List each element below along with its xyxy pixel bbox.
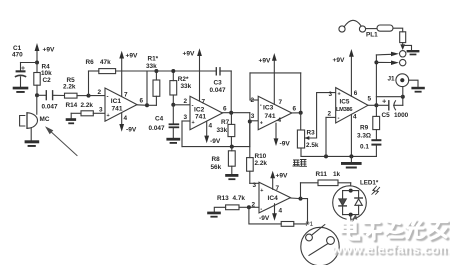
svg-text:2: 2 [184, 98, 188, 105]
pin 6 output (IC2) [223, 112, 250, 114]
pin 7 +9V (IC3) [272, 53, 277, 104]
svg-text:7: 7 [279, 99, 283, 106]
svg-text:6: 6 [140, 98, 144, 105]
svg-text:1000: 1000 [394, 112, 409, 119]
wire IC5 output up to switch [375, 55, 377, 105]
svg-text:-9V: -9V [126, 127, 137, 134]
node (mic / C2 junction) [35, 93, 39, 97]
svg-text:2.2k: 2.2k [81, 102, 94, 109]
resistor R14 [71, 111, 105, 118]
resistor R10 [247, 122, 254, 184]
ground (R13) [207, 212, 221, 218]
svg-text:0.047: 0.047 [149, 125, 165, 132]
wire to IC1 pin 2 [89, 95, 106, 97]
svg-text:C3: C3 [214, 80, 223, 87]
svg-text:3: 3 [251, 113, 255, 120]
wire output to R1 [147, 104, 156, 106]
svg-text:2: 2 [98, 89, 102, 96]
pin 6 +9V (IC5) [349, 49, 354, 96]
pin 3 wire (IC2) to bias rail [182, 121, 250, 147]
capacitor C1 [16, 63, 26, 87]
svg-text:C2: C2 [43, 77, 52, 84]
svg-text:MC: MC [40, 116, 50, 123]
node (R2 top) [171, 69, 175, 73]
svg-text:4: 4 [124, 115, 128, 122]
svg-text:470: 470 [12, 52, 23, 59]
resistor R8 [228, 147, 235, 174]
wire LED bottom exit [350, 215, 352, 231]
resistor R7 [228, 113, 235, 147]
wire [21, 62, 38, 64]
svg-text:www.elecfans.com: www.elecfans.com [331, 242, 450, 257]
svg-text:0.047: 0.047 [210, 87, 226, 94]
svg-text:+: + [338, 92, 341, 98]
resistor R13 [214, 205, 259, 212]
capacitor 0.1 (zobel) [371, 139, 381, 156]
resistor R11 [301, 180, 351, 199]
svg-text:R6: R6 [86, 59, 95, 66]
annotation arrow (points to mic) [45, 126, 77, 155]
node (IC5 pin2 on rail) [324, 154, 328, 158]
ground (C4) [166, 138, 180, 144]
svg-text:33k: 33k [146, 63, 157, 70]
ground (mic) [25, 140, 40, 147]
svg-text:+9V: +9V [126, 53, 139, 60]
svg-text:47k: 47k [100, 59, 111, 66]
svg-text:+9V: +9V [43, 47, 56, 54]
plug PL1 [339, 20, 403, 32]
op-amp IC4 [259, 182, 291, 213]
svg-text:4: 4 [279, 208, 283, 215]
svg-text:-9V: -9V [280, 141, 291, 148]
jack J1 [396, 74, 418, 97]
op-amp IC2 [190, 96, 223, 129]
svg-text:+: + [107, 113, 110, 119]
svg-text:6: 6 [293, 106, 297, 113]
node (C1 / R4 / +9V junction) [35, 61, 39, 65]
pin 4 -9V (IC3) [274, 123, 279, 146]
pin 2 wire (IC5) [326, 117, 336, 156]
pin 6 output (IC3) [292, 112, 301, 114]
LED indicator circle [333, 186, 367, 220]
svg-text:1k: 1k [333, 171, 341, 178]
svg-text:+: + [192, 120, 195, 126]
resistor R6 feedback [89, 69, 148, 106]
svg-text:P1: P1 [306, 221, 314, 228]
volume label (Chinese) [293, 160, 307, 167]
svg-text:R7: R7 [221, 119, 230, 126]
ground (R14) [66, 118, 76, 124]
wire IC2out corner down to IC3 pin3 node [249, 113, 251, 122]
resistor (PL1 branch) [400, 32, 406, 50]
svg-text:3: 3 [329, 91, 333, 98]
node (C3/R7 on IC2 output) [229, 111, 233, 115]
node (IC1 pin2 / R5 / R6) [87, 94, 91, 98]
capacitor C5 (electrolytic out) [376, 100, 402, 110]
node (IC4 pin2) [247, 205, 251, 209]
svg-text:3.3Ω: 3.3Ω [357, 133, 371, 140]
node (LED bottom) [349, 213, 353, 217]
svg-text:0.1: 0.1 [360, 144, 369, 151]
top rail wire [147, 70, 216, 72]
svg-text:+: + [260, 188, 263, 194]
svg-text:56k: 56k [211, 164, 222, 171]
svg-text:-: - [260, 207, 262, 213]
node (R7/R8 divider) [230, 145, 234, 149]
svg-text:3: 3 [253, 182, 257, 189]
pin 4 -9V (IC1) [119, 113, 124, 132]
lightning mark [372, 186, 377, 195]
pin 5 output (IC5) [368, 104, 376, 106]
svg-text:4: 4 [353, 114, 357, 121]
svg-text:-9V: -9V [210, 138, 221, 145]
pin 7 +9V (IC4) [270, 171, 275, 190]
pin 6 output (IC4) [291, 197, 301, 200]
svg-text:R11: R11 [316, 171, 328, 178]
svg-text:R3: R3 [307, 130, 316, 137]
svg-text:33k: 33k [181, 83, 192, 90]
svg-text:7: 7 [202, 99, 206, 106]
svg-text:741: 741 [112, 106, 123, 113]
svg-text:+9V: +9V [259, 58, 272, 65]
svg-text:R14: R14 [66, 102, 78, 109]
pin 7 +9V (IC2) [197, 48, 202, 101]
svg-text:R9: R9 [360, 125, 369, 132]
op-amp IC3 [258, 96, 292, 129]
svg-text:3: 3 [99, 107, 103, 114]
pin 6 output (IC1) [137, 104, 147, 107]
svg-text:+: + [260, 121, 263, 127]
svg-text:2.2k: 2.2k [255, 160, 268, 167]
switch contact circles [400, 51, 406, 57]
svg-text:C4: C4 [155, 116, 164, 123]
node (LED top) [349, 189, 353, 193]
svg-text:7: 7 [124, 92, 128, 99]
svg-text:0.047: 0.047 [42, 104, 58, 111]
ground (IC5) [341, 156, 362, 168]
pin 4 -9V (IC4) [272, 204, 277, 221]
wire C5 up to J1 [402, 97, 404, 106]
svg-text:LED1*: LED1* [360, 180, 379, 187]
probe plug P1 [301, 225, 339, 265]
svg-text:R10: R10 [255, 153, 267, 160]
ground (R8) [225, 174, 238, 180]
feedback resistor (IC4) [249, 199, 308, 227]
svg-text:-: - [338, 116, 340, 122]
svg-text:R2*: R2* [178, 76, 189, 83]
svg-text:2: 2 [328, 111, 332, 118]
ground (PL1 branch) [403, 45, 420, 55]
svg-text:IC3: IC3 [263, 105, 274, 112]
probe arrow (points to LED) [346, 214, 357, 230]
svg-text:4: 4 [209, 123, 213, 130]
op-amp IC5 LM386 [336, 88, 368, 123]
svg-text:+9V: +9V [183, 51, 196, 58]
svg-text:IC5: IC5 [340, 99, 350, 106]
resistor R1* [153, 71, 160, 105]
svg-text:5: 5 [368, 96, 372, 103]
svg-text:6: 6 [223, 106, 227, 113]
svg-text:6: 6 [354, 90, 358, 97]
wire to IC2 pin 2 [173, 104, 190, 106]
svg-text:7: 7 [276, 185, 280, 192]
op-amp IC1 [105, 88, 137, 121]
svg-text:R13: R13 [217, 195, 229, 202]
svg-text:33k: 33k [217, 127, 228, 134]
svg-text:741: 741 [195, 113, 206, 120]
svg-text:3: 3 [184, 114, 188, 121]
svg-text:J1: J1 [388, 76, 396, 83]
svg-text:-: - [260, 103, 262, 109]
microphone MC [20, 95, 38, 140]
ground (J1) [411, 87, 424, 93]
capacitor C3 [216, 68, 231, 113]
capacitor C4 [169, 105, 180, 138]
svg-text:LM386: LM386 [336, 107, 352, 113]
svg-text:R1*: R1* [148, 56, 159, 63]
svg-text:C5: C5 [382, 112, 391, 119]
resistor R4 [34, 63, 40, 96]
node (IC2 pin2 / R2 / C4) [171, 103, 175, 107]
svg-text:-: - [107, 95, 109, 101]
svg-text:R8: R8 [212, 156, 221, 163]
ground (C1) [13, 87, 29, 93]
wire to IC4 pin 3 [250, 182, 259, 184]
wire rail up to node [249, 122, 251, 147]
pin 2 feedback loop (IC3) [250, 73, 301, 113]
svg-text:4.7k: 4.7k [233, 195, 246, 202]
ground rail (output stage) [301, 155, 376, 157]
svg-text:+9V: +9V [333, 57, 346, 64]
pin 7 +9V (IC1) [119, 51, 124, 97]
svg-text:-9V: -9V [259, 215, 270, 222]
svg-text:4: 4 [278, 117, 282, 124]
svg-text:+9V: +9V [276, 173, 289, 180]
svg-text:741: 741 [265, 113, 276, 120]
resistor R2* [170, 71, 177, 105]
svg-text:2.5k: 2.5k [306, 142, 319, 149]
pin 4 -9V (IC2) [204, 121, 209, 143]
resistor R5 [65, 93, 89, 98]
pin 4 (IC5) [350, 114, 352, 156]
svg-text:IC1: IC1 [111, 98, 122, 105]
svg-text:IC4: IC4 [268, 195, 279, 202]
wire to IC3 pin 3 [250, 120, 258, 122]
svg-text:2.2k: 2.2k [63, 84, 76, 91]
LED pair wiring [339, 191, 362, 215]
capacitor C2 [37, 91, 65, 100]
switch contact wires with arrows [376, 52, 399, 65]
power arrow +9V (input stage) [35, 43, 40, 63]
svg-text:PL1: PL1 [366, 32, 378, 39]
potentiometer R3 [297, 93, 335, 157]
resistor R9 (zobel) [373, 105, 380, 139]
node (R1 top) [154, 69, 158, 73]
node (IC3 pin3 / R10 / rail) [248, 120, 252, 124]
svg-text:-: - [192, 104, 194, 110]
